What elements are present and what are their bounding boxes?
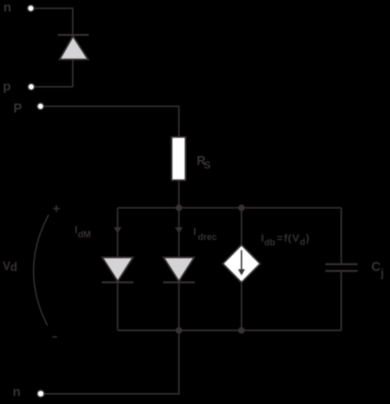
junction dot top rail / current source (238, 205, 245, 212)
wire second branch (diode Drec column) (178, 208, 180, 331)
diode D3 (Drec, pointing down) (163, 257, 195, 282)
wire from top rail to capacitor Cj (340, 208, 342, 263)
label IdM (75, 224, 91, 239)
label RS (197, 154, 211, 172)
svg-text:S: S (204, 160, 211, 172)
controlled current source Idb (diamond) (223, 245, 260, 283)
svg-text:V: V (292, 233, 299, 245)
svg-text:C: C (371, 259, 381, 274)
diode D1 (top, pointing up) (58, 35, 89, 60)
junction dot bottom rail / current source (238, 327, 245, 334)
svg-text:I: I (193, 226, 196, 238)
wire from terminal P to resistor RS (44, 106, 179, 137)
wire bottom rail (118, 329, 342, 331)
svg-text:drec: drec (198, 232, 217, 242)
current arrow Idrec (175, 227, 183, 233)
svg-text:d: d (300, 237, 306, 247)
wire from terminal n (top) to diode D1 cathode (34, 8, 73, 35)
svg-text:dM: dM (78, 229, 91, 239)
svg-text:p: p (3, 79, 11, 94)
wire from current source to bottom rail (241, 283, 243, 331)
resistor RS body (172, 137, 186, 180)
svg-text:n: n (3, 0, 11, 14)
svg-text:d: d (10, 262, 17, 274)
wire top rail (118, 207, 342, 209)
label Cj (371, 259, 384, 279)
svg-text:n: n (13, 384, 21, 399)
current arrow IdM (114, 227, 122, 233)
capacitor Cj plates (325, 264, 357, 271)
diode D2 (DM, pointing down) (102, 257, 134, 282)
svg-text:db: db (264, 238, 275, 248)
wire from diode D1 anode down to node p (72, 59, 74, 86)
svg-text:=: = (277, 233, 283, 245)
label Idrec (193, 226, 217, 242)
terminal n (bottom) (37, 390, 44, 397)
junction dot top rail / resistor (176, 205, 183, 212)
minus sign (53, 336, 58, 338)
wire from resistor RS to top rail (178, 180, 180, 208)
wire from terminal p to diode branch (35, 86, 73, 88)
wire left branch (diode DM column) (117, 208, 119, 331)
wire from capacitor Cj to bottom rail (340, 272, 342, 331)
terminal P (37, 103, 44, 110)
label Idb=f(Vd) (261, 233, 309, 248)
svg-text:P: P (13, 100, 22, 115)
terminal p (28, 84, 35, 91)
wire from top rail to current source (241, 208, 243, 245)
wire from bottom rail down to terminal n (bottom) (44, 330, 179, 394)
svg-text:): ) (306, 233, 310, 245)
terminal n (top) (28, 5, 35, 12)
junction dot bottom rail / diode column (176, 327, 183, 334)
plus sign (53, 205, 60, 212)
Vd measurement arc (34, 215, 49, 326)
svg-text:j: j (380, 267, 384, 279)
label Vd (3, 261, 17, 274)
